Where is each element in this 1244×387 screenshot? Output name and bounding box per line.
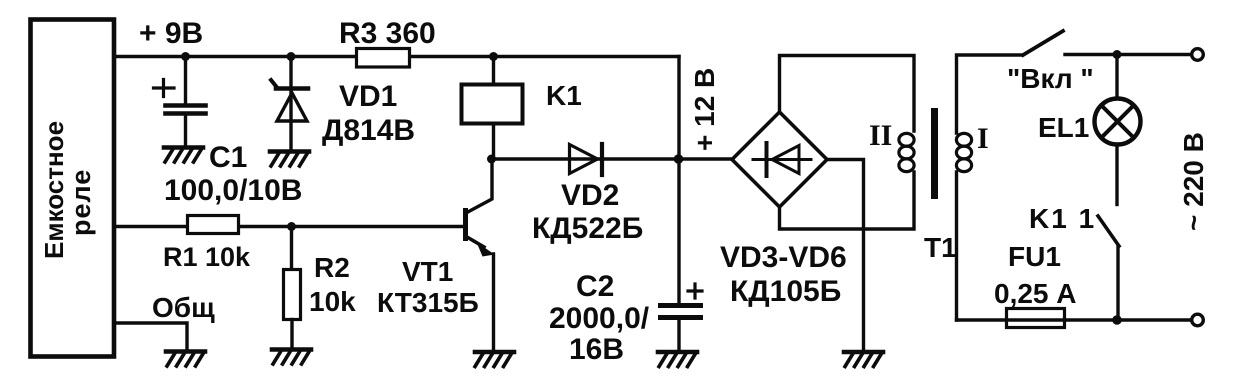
svg-text:+ 9В: + 9В (139, 17, 203, 50)
wire bottom right rail (957, 318, 1190, 321)
bridge rectifier VD3-VD6 (732, 112, 827, 207)
svg-text:C1: C1 (209, 141, 247, 174)
wire bridge bottom AC lead (780, 172, 915, 229)
node +12V junction (674, 154, 684, 164)
wire bridge plus lead (679, 157, 733, 160)
svg-text:0,25 А: 0,25 А (994, 278, 1077, 309)
wire C1 bottom lead (184, 116, 187, 148)
wire VD2 rail (492, 157, 680, 160)
svg-text:"Вкл ": "Вкл " (1007, 63, 1094, 94)
terminal bottom (1192, 314, 1204, 326)
svg-text:EL1: EL1 (1038, 112, 1089, 143)
svg-text:Емкостное: Емкостное (39, 121, 69, 259)
wire top right rail (1065, 53, 1189, 56)
wire R2 top lead (290, 227, 293, 270)
svg-text:C2: C2 (576, 270, 614, 303)
svg-text:реле: реле (66, 169, 96, 236)
wire +9V top rail (114, 55, 679, 58)
svg-text:R2: R2 (314, 252, 350, 283)
resistor R1 (188, 216, 239, 234)
svg-text:КТ315Б: КТ315Б (377, 287, 479, 318)
svg-text:VD2: VD2 (561, 179, 619, 212)
ground Общ (166, 349, 205, 354)
lamp EL1 (1095, 99, 1141, 145)
svg-text:16В: 16В (569, 333, 624, 366)
wire C1 top lead (184, 57, 187, 104)
resistor R3 (357, 49, 410, 68)
svg-text:FU1: FU1 (1008, 241, 1061, 272)
svg-text:~ 220 В: ~ 220 В (1178, 132, 1209, 231)
transformer T1 core (931, 108, 938, 199)
svg-text:R3 360: R3 360 (339, 17, 436, 50)
ground R2 (272, 347, 311, 352)
relay contact K1.1 (1098, 216, 1119, 246)
wire +12V rail (677, 57, 680, 352)
transistor VT1 (463, 208, 468, 241)
svg-text:VD3-VD6: VD3-VD6 (720, 241, 847, 274)
diode VD2 (570, 145, 598, 174)
terminal top (1192, 49, 1204, 61)
wire bridge top AC lead (780, 56, 915, 132)
node C1 junction (181, 52, 190, 61)
svg-text:КД105Б: КД105Б (730, 275, 841, 308)
wire Общ lead (114, 323, 187, 351)
svg-text:T1: T1 (924, 232, 957, 263)
svg-text:+ 12 В: + 12 В (689, 68, 720, 151)
ground bridge (844, 350, 883, 355)
capacitor C2 (688, 284, 702, 298)
svg-text:K1 1: K1 1 (1029, 203, 1096, 234)
svg-text:VT1: VT1 (402, 256, 453, 287)
transformer T1 winding II (899, 133, 914, 146)
svg-text:II: II (869, 119, 892, 152)
capacitor C1 (154, 80, 175, 97)
ground VT1 (475, 350, 514, 355)
svg-text:10k: 10k (309, 286, 356, 317)
svg-text:R1 10k: R1 10k (163, 242, 251, 272)
svg-text:K1: K1 (546, 80, 582, 111)
zener diode VD1 (271, 80, 277, 88)
transformer T1 winding I (957, 55, 1022, 133)
node K1 top junction (489, 52, 498, 61)
node collector junction (487, 155, 496, 164)
wire emitter lead (492, 254, 495, 351)
wire K1 top lead (492, 57, 495, 84)
wire K1 bottom lead (492, 125, 494, 160)
block: capacitive relay box (31, 20, 115, 357)
wire bridge minus to ground (827, 160, 864, 352)
fuse FU1 (1007, 309, 1065, 328)
wire VD1 lead (289, 57, 292, 152)
wire base rail (114, 225, 463, 228)
node R2 junction (287, 222, 296, 231)
svg-text:VD1: VD1 (339, 80, 397, 113)
svg-text:Общ: Общ (152, 292, 215, 323)
ground C2 (658, 350, 697, 355)
ground C1 (164, 145, 203, 150)
relay coil K1 (462, 85, 523, 124)
svg-text:2000,0/: 2000,0/ (549, 302, 650, 335)
svg-text:Д814В: Д814В (322, 114, 415, 147)
svg-text:100,0/10В: 100,0/10В (164, 174, 302, 207)
node lamp top junction (1113, 50, 1122, 59)
switch Вкл (1023, 31, 1063, 55)
wire lamp bottom lead (1115, 145, 1118, 205)
svg-text:I: I (977, 122, 989, 155)
wire lamp top lead (1115, 55, 1118, 98)
node VD1 junction (287, 52, 296, 61)
svg-text:КД522Б: КД522Б (532, 212, 643, 245)
ground VD1 (270, 149, 309, 154)
resistor R2 (284, 270, 301, 320)
node bottom junction (1112, 315, 1122, 325)
wire R2 bottom lead (290, 320, 293, 350)
